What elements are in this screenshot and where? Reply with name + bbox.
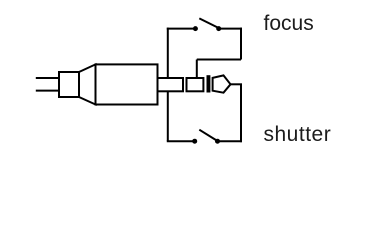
wire sleeve-to-switches vertical (ground bus) xyxy=(167,28,169,142)
wire focus-loop top-left xyxy=(167,28,193,30)
wire cable-lead-bottom xyxy=(36,90,60,92)
plug body xyxy=(96,64,158,104)
wire focus jog horizontal xyxy=(197,59,241,61)
wire focus-loop right vertical xyxy=(240,28,242,60)
switch S2 shutter contact right xyxy=(215,139,220,144)
wire ring-to-focus vertical xyxy=(196,60,198,79)
tip contact xyxy=(213,75,231,92)
ring contact xyxy=(187,78,204,91)
wire cable-lead-top xyxy=(36,77,60,79)
sleeve contact xyxy=(158,78,184,91)
switch S2 shutter contact left xyxy=(192,139,197,144)
svg-text:shutter: shutter xyxy=(264,123,332,146)
wire shutter-loop right vertical xyxy=(240,84,242,142)
svg-text:focus: focus xyxy=(264,12,314,35)
switch S1 focus lever xyxy=(199,18,218,28)
wire tip lead xyxy=(231,83,243,85)
wire shutter-loop bottom-right xyxy=(218,140,243,142)
plug body taper xyxy=(79,64,96,104)
switch S2 shutter lever xyxy=(199,130,217,141)
insulator band xyxy=(207,75,211,92)
wire focus-loop top-right xyxy=(219,28,242,30)
wire shutter-loop bottom-left xyxy=(167,140,193,142)
switch S1 focus contact left xyxy=(193,26,198,31)
strain relief boot xyxy=(59,72,79,97)
switch S1 focus contact right xyxy=(216,26,221,31)
